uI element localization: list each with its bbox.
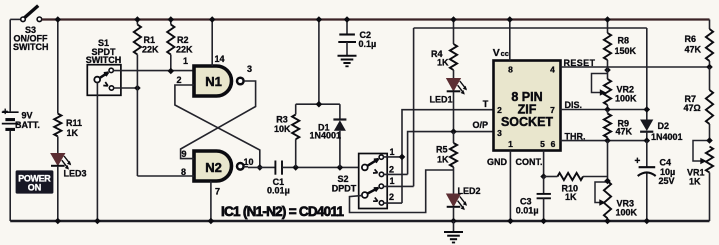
svg-text:0.1µ: 0.1µ bbox=[359, 39, 377, 49]
svg-text:1K: 1K bbox=[565, 192, 577, 202]
junction N2 output bbox=[257, 164, 264, 171]
svg-text:1N4001: 1N4001 bbox=[651, 132, 683, 142]
svg-text:47Ω: 47Ω bbox=[684, 103, 701, 113]
junction Vcc rail bbox=[507, 16, 514, 23]
svg-text:22K: 22K bbox=[176, 45, 193, 55]
svg-text:22K: 22K bbox=[142, 45, 159, 55]
svg-text:+: + bbox=[635, 156, 641, 167]
svg-text:47K: 47K bbox=[616, 127, 633, 137]
ground below C2 bbox=[338, 55, 357, 57]
diode D1 1N4001 bbox=[339, 104, 341, 119]
wire pin1 GND to ground rail bbox=[509, 151, 511, 222]
svg-text:10K: 10K bbox=[274, 124, 291, 134]
junction LED1 / O-P bbox=[450, 128, 457, 135]
svg-text:3: 3 bbox=[247, 64, 252, 74]
wire S2 top-2 to O/P line bbox=[383, 173, 407, 175]
wire pin5 CONT down bbox=[543, 151, 545, 177]
ground symbol below rail bbox=[453, 221, 455, 232]
potentiometer VR3 100K bbox=[607, 141, 609, 181]
wire R3/D1 top node bbox=[296, 103, 340, 105]
junction R8 rail bbox=[604, 16, 611, 23]
resistor R3 10K bbox=[295, 139, 297, 167]
capacitor C4 10u 25V (electrolytic) bbox=[646, 141, 648, 167]
svg-text:1K: 1K bbox=[437, 58, 449, 68]
svg-text:100K: 100K bbox=[615, 94, 637, 104]
LED3 bbox=[51, 154, 65, 166]
junction R11 top bbox=[55, 16, 62, 23]
svg-text:4: 4 bbox=[550, 65, 555, 75]
wire S1 lower contact bbox=[114, 87, 138, 89]
junction R2 bottom bbox=[168, 68, 175, 75]
junction R6/R7/RESET bbox=[706, 64, 713, 71]
junction S1 common ground bbox=[94, 218, 101, 225]
svg-text:R2: R2 bbox=[177, 35, 189, 45]
capacitor C1 0.01u bbox=[274, 161, 276, 175]
svg-text:BATT.: BATT. bbox=[15, 120, 40, 130]
junction C4 ground bbox=[644, 218, 651, 225]
battery B1 9V bbox=[9, 20, 11, 112]
wire cross-couple N2 out to N1 pin2 bbox=[175, 85, 260, 167]
svg-text:14: 14 bbox=[214, 54, 224, 64]
junction R3 bottom bbox=[292, 164, 299, 171]
junction LED2 ground bbox=[450, 218, 457, 225]
svg-text:0.01µ: 0.01µ bbox=[516, 206, 539, 216]
nand gate N1 (pins 1,2,3,14) bbox=[194, 66, 232, 96]
svg-text:CONT.: CONT. bbox=[516, 157, 543, 167]
junction C2 rail bbox=[344, 16, 351, 23]
svg-text:7: 7 bbox=[550, 105, 555, 115]
svg-text:1: 1 bbox=[389, 176, 394, 186]
junction D1 bottom bbox=[337, 164, 344, 171]
switch S1 SPDT box bbox=[87, 65, 121, 96]
svg-text:8: 8 bbox=[508, 65, 513, 75]
resistor R2 22K bbox=[170, 20, 172, 25]
svg-text:RESET: RESET bbox=[564, 58, 596, 68]
svg-text:7: 7 bbox=[215, 187, 220, 197]
svg-text:1: 1 bbox=[183, 56, 188, 66]
svg-text:R8: R8 bbox=[618, 36, 630, 46]
svg-text:100K: 100K bbox=[616, 208, 638, 218]
svg-text:1K: 1K bbox=[437, 155, 449, 165]
wire DIS pin7 bbox=[560, 109, 647, 111]
resistor R8 150K bbox=[607, 20, 609, 34]
junction S2 top-1 bbox=[399, 154, 406, 161]
junction D2/DIS bbox=[644, 106, 651, 113]
nand gate N2 (pins 8,9,10,7) bbox=[194, 151, 232, 181]
junction pin1 ground bbox=[507, 218, 514, 225]
svg-text:GND: GND bbox=[487, 157, 508, 167]
resistor R10 1K bbox=[544, 176, 558, 178]
wire supply sub-line y28 bbox=[414, 27, 647, 29]
svg-text:1N4001: 1N4001 bbox=[310, 130, 342, 140]
svg-text:R11: R11 bbox=[66, 118, 82, 128]
junction R9/THR bbox=[604, 137, 611, 144]
junction VR2/R9/DIS bbox=[604, 106, 611, 113]
svg-text:C4: C4 bbox=[660, 158, 672, 168]
svg-text:+: + bbox=[2, 107, 8, 118]
svg-text:1K: 1K bbox=[67, 128, 79, 138]
svg-text:150K: 150K bbox=[615, 46, 637, 56]
svg-text:THR.: THR. bbox=[565, 132, 586, 142]
svg-text:T: T bbox=[483, 99, 489, 109]
junction VR3 ground bbox=[604, 218, 611, 225]
svg-text:DPDT: DPDT bbox=[332, 183, 357, 193]
svg-text:1: 1 bbox=[508, 139, 513, 149]
svg-text:5: 5 bbox=[540, 139, 545, 149]
svg-text:SWITCH: SWITCH bbox=[13, 42, 49, 52]
svg-text:SWITCH: SWITCH bbox=[86, 55, 122, 65]
junction pin7 ground bbox=[208, 218, 215, 225]
resistor R1 22K bbox=[136, 20, 138, 25]
switch S3 ON/OFF bbox=[10, 18, 21, 20]
potentiometer VR2 100K bbox=[607, 67, 609, 79]
svg-text:25V: 25V bbox=[659, 176, 675, 186]
wire THR pin6 bbox=[560, 140, 647, 142]
svg-text:47K: 47K bbox=[685, 45, 702, 55]
wire S1 upper contact to N1 pin1 bbox=[113, 70, 194, 72]
wire S1 common to ground bbox=[96, 83, 98, 222]
svg-text:6: 6 bbox=[551, 139, 556, 149]
svg-text:IC1 (N1-N2) = CD4011: IC1 (N1-N2) = CD4011 bbox=[221, 204, 344, 219]
wire C1 to S2 common bbox=[282, 166, 359, 168]
bottom ground rail bbox=[10, 220, 709, 222]
wire node to rail bbox=[318, 20, 320, 105]
wire S2 bottom common loop bbox=[350, 170, 454, 213]
junction R2 rail bbox=[168, 16, 175, 23]
junction R1 rail bbox=[134, 16, 141, 23]
resistor R4 1K bbox=[453, 20, 455, 45]
potentiometer VR1 1K bbox=[706, 147, 713, 173]
svg-text:N1: N1 bbox=[205, 74, 222, 89]
wire cross-couple N1 out to N2 pin9 bbox=[181, 81, 256, 159]
svg-text:R1: R1 bbox=[144, 35, 156, 45]
wire S2 bottom-1 to supply line bbox=[383, 185, 413, 187]
switch S1 contacts bbox=[97, 72, 108, 79]
switch S2 top section bbox=[365, 159, 379, 168]
junction R8 reset bbox=[604, 67, 611, 74]
svg-text:V: V bbox=[493, 47, 500, 59]
svg-text:0.01µ: 0.01µ bbox=[267, 186, 290, 196]
wire Vcc pin8 to rail bbox=[509, 20, 511, 61]
junction node rail bbox=[316, 16, 323, 23]
svg-text:2: 2 bbox=[176, 75, 181, 85]
resistor R11 1K bbox=[57, 20, 59, 114]
svg-text:LED1: LED1 bbox=[430, 95, 453, 105]
svg-text:R5: R5 bbox=[436, 145, 448, 155]
junction R4 rail bbox=[450, 16, 457, 23]
LED2 bbox=[447, 194, 461, 206]
junction R1 bottom / S1 bbox=[134, 85, 141, 92]
junction VR1 wiper tap bbox=[706, 137, 713, 144]
svg-text:1: 1 bbox=[389, 147, 394, 157]
capacitor C2 0.1u bbox=[346, 20, 348, 35]
junction VR3 wiper tap bbox=[604, 178, 611, 185]
svg-text:D2: D2 bbox=[658, 121, 670, 131]
svg-text:3: 3 bbox=[497, 128, 502, 138]
svg-text:ON: ON bbox=[28, 182, 42, 192]
junction pin14 rail bbox=[209, 16, 216, 23]
resistor R9 47K bbox=[607, 110, 609, 114]
wire N2 pin7 to ground bbox=[210, 181, 212, 221]
wire N1 pin14 to rail bbox=[211, 20, 213, 67]
svg-text:LED3: LED3 bbox=[64, 169, 87, 179]
LED1 bbox=[447, 79, 461, 91]
svg-text:1K: 1K bbox=[689, 177, 701, 187]
resistor R7 47ohm bbox=[709, 67, 711, 90]
capacitor C3 0.01u bbox=[543, 177, 545, 194]
svg-text:DIS.: DIS. bbox=[565, 100, 583, 110]
svg-text:9: 9 bbox=[181, 149, 186, 159]
switch S2 DPDT box bbox=[359, 154, 388, 209]
junction LED3 bottom bbox=[55, 218, 62, 225]
resistor R6 47K bbox=[709, 20, 711, 30]
resistor R5 1K bbox=[450, 143, 457, 167]
wire RESET pin4 bbox=[560, 66, 709, 68]
svg-text:2: 2 bbox=[389, 192, 394, 202]
junction CONT node bbox=[540, 173, 547, 180]
diode D2 1N4001 bbox=[646, 28, 648, 120]
wire S2 top-1 to T line bbox=[383, 156, 402, 158]
switch S2 bottom section bbox=[365, 188, 379, 195]
svg-text:R6: R6 bbox=[685, 34, 697, 44]
wire N2 pin8 bbox=[137, 175, 194, 177]
svg-text:SOCKET: SOCKET bbox=[501, 115, 553, 129]
svg-text:cc: cc bbox=[501, 49, 509, 58]
junction D2/THR bbox=[644, 137, 651, 144]
svg-text:2: 2 bbox=[389, 165, 394, 175]
junction C3 ground bbox=[540, 218, 547, 225]
svg-text:2: 2 bbox=[497, 105, 502, 115]
svg-text:O/P: O/P bbox=[473, 120, 489, 130]
top supply rail bbox=[42, 18, 710, 20]
svg-text:N2: N2 bbox=[205, 160, 222, 175]
POWER ON label box bbox=[16, 170, 54, 193]
junction node top bbox=[316, 101, 323, 108]
svg-text:LED2: LED2 bbox=[458, 186, 481, 196]
svg-text:9V: 9V bbox=[22, 111, 33, 121]
svg-text:R3: R3 bbox=[276, 115, 288, 125]
svg-text:10: 10 bbox=[243, 157, 253, 167]
wire N2 output to C1 bbox=[244, 166, 248, 168]
IC 8-pin ZIF socket bbox=[494, 61, 561, 151]
